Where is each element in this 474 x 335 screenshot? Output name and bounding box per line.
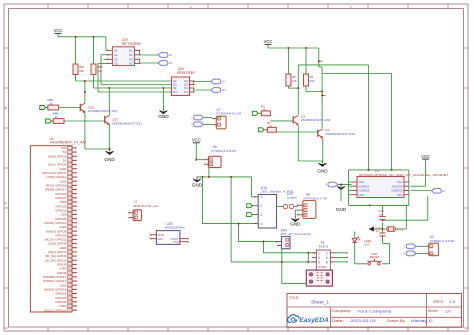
svg-text:Company:: Company: xyxy=(331,309,351,313)
svg-text:P1S/P2S: P1S/P2S xyxy=(392,184,403,188)
svg-text:D1: D1 xyxy=(129,49,133,53)
svg-text:(SCLK) GPIO21: (SCLK) GPIO21 xyxy=(44,308,66,312)
svg-text:2: 2 xyxy=(326,251,328,255)
svg-text:VCC: VCC xyxy=(421,154,430,159)
svg-text:M4: M4 xyxy=(222,88,226,92)
svg-text:Drawn By:: Drawn By: xyxy=(387,319,406,323)
svg-text:M1: M1 xyxy=(169,53,173,57)
svg-text:2: 2 xyxy=(260,204,262,208)
svg-text:GND: GND xyxy=(192,182,203,187)
svg-text:JST-PCB-0.1"-3P: JST-PCB-0.1"-3P xyxy=(303,196,327,200)
svg-text:G1: G1 xyxy=(173,90,177,94)
svg-text:RESET: RESET xyxy=(370,255,380,259)
svg-text:M2: M2 xyxy=(169,61,173,65)
svg-text:GND: GND xyxy=(158,114,169,119)
svg-text:VCC: VCC xyxy=(192,138,201,143)
svg-text:R2: R2 xyxy=(442,189,446,193)
svg-text:RASPBERRY_PI_HAT: RASPBERRY_PI_HAT xyxy=(50,141,86,145)
svg-text:B: B xyxy=(5,106,7,110)
svg-text:2N3904(SOT-23): 2N3904(SOT-23) xyxy=(112,121,142,125)
svg-text:TITLE:: TITLE: xyxy=(289,296,299,300)
svg-text:1: 1 xyxy=(318,251,320,255)
svg-text:1: 1 xyxy=(260,195,262,199)
svg-text:N1G: N1G xyxy=(359,180,364,184)
svg-text:M3: M3 xyxy=(222,80,226,84)
svg-text:APX900 AP9006_2N_AND_2P_CHAN: APX900 AP9006_2N_AND_2P_CHANNEL_MOSFET xyxy=(359,173,449,177)
svg-text:1u: 1u xyxy=(376,229,380,233)
svg-text:N: N xyxy=(403,252,405,256)
svg-text:5: 5 xyxy=(318,260,320,264)
svg-text:N1S/N2S: N1S/N2S xyxy=(359,189,370,193)
svg-text:D1: D1 xyxy=(129,53,133,57)
svg-text:P1G: P1G xyxy=(397,180,402,184)
svg-text:10k: 10k xyxy=(97,69,102,73)
svg-text:GND: GND xyxy=(104,157,115,162)
svg-text:G1: G1 xyxy=(114,53,118,57)
svg-text:4: 4 xyxy=(326,256,328,260)
svg-text:WS2812B-Mini: WS2812B-Mini xyxy=(165,225,185,229)
svg-text:HDR-M-2.54_1x2: HDR-M-2.54_1x2 xyxy=(133,204,158,208)
svg-text:IRF8313PBF: IRF8313PBF xyxy=(177,71,195,75)
svg-text:G2: G2 xyxy=(114,62,118,66)
svg-text:6: 6 xyxy=(326,260,328,264)
svg-text:GND: GND xyxy=(336,207,347,212)
svg-text:N2G: N2G xyxy=(359,193,364,197)
svg-text:10k: 10k xyxy=(292,79,297,83)
svg-text:P2G: P2G xyxy=(397,193,402,197)
svg-text:XY300V-A-5.0-2P: XY300V-A-5.0-2P xyxy=(430,239,455,243)
svg-text:JST_2P_Connector: JST_2P_Connector xyxy=(280,232,311,236)
svg-text:Nikolay_D: Nikolay_D xyxy=(411,319,433,323)
svg-text:PLD-6: PLD-6 xyxy=(319,244,329,248)
svg-text:2021-02-03: 2021-02-03 xyxy=(351,319,376,323)
svg-text:3: 3 xyxy=(260,213,262,217)
svg-text:1/1: 1/1 xyxy=(445,309,451,313)
svg-text:D2: D2 xyxy=(129,62,133,66)
svg-text:VSS: VSS xyxy=(173,240,179,244)
svg-text:N2D/P2D: N2D/P2D xyxy=(392,189,403,193)
svg-text:S: S xyxy=(325,183,327,187)
svg-text:EasyEDA: EasyEDA xyxy=(299,317,329,324)
svg-text:Date:: Date: xyxy=(331,319,344,323)
svg-text:4: 4 xyxy=(260,222,262,226)
svg-text:2N3904(SOT-23): 2N3904(SOT-23) xyxy=(301,118,331,122)
svg-text:1u: 1u xyxy=(379,213,383,217)
svg-text:N: N xyxy=(191,123,193,127)
svg-text:JST_Sticker_4_POL: JST_Sticker_4_POL xyxy=(261,190,295,194)
svg-text:XY300V-A-5.0-2P: XY300V-A-5.0-2P xyxy=(216,111,241,115)
svg-text:Jumper: Jumper xyxy=(287,196,297,200)
svg-text:GND: GND xyxy=(317,169,328,174)
svg-text:2N3904(SOT-23): 2N3904(SOT-23) xyxy=(88,109,118,113)
svg-text:N1S/P1D: N1S/P1D xyxy=(359,184,370,188)
svg-text:XTL1: XTL1 xyxy=(396,227,404,231)
svg-text:2N3904(SOT-23): 2N3904(SOT-23) xyxy=(325,132,355,136)
svg-text:1.0: 1.0 xyxy=(449,300,455,304)
svg-text:10k: 10k xyxy=(79,69,84,73)
svg-text:DIN: DIN xyxy=(158,237,163,241)
svg-text:D13: D13 xyxy=(364,243,370,247)
svg-text:Sheet_1: Sheet_1 xyxy=(311,299,329,304)
svg-text:Sheet:: Sheet: xyxy=(428,309,439,313)
svg-text:XY300V-A-5.0-2P: XY300V-A-5.0-2P xyxy=(211,149,236,153)
svg-text:VCC: VCC xyxy=(264,39,273,44)
svg-text:VCC: VCC xyxy=(54,28,63,33)
svg-text:GND: GND xyxy=(290,222,301,227)
svg-text:ICSP: ICSP xyxy=(318,265,327,269)
svg-text:3: 3 xyxy=(318,256,320,260)
svg-text:IRF7304PBF: IRF7304PBF xyxy=(122,42,142,46)
svg-text:Your Company: Your Company xyxy=(357,309,391,313)
svg-text:10k: 10k xyxy=(310,79,315,83)
svg-text:S1: S1 xyxy=(114,49,118,53)
svg-text:D1: D1 xyxy=(184,90,188,94)
svg-text:REV:: REV: xyxy=(434,300,445,304)
